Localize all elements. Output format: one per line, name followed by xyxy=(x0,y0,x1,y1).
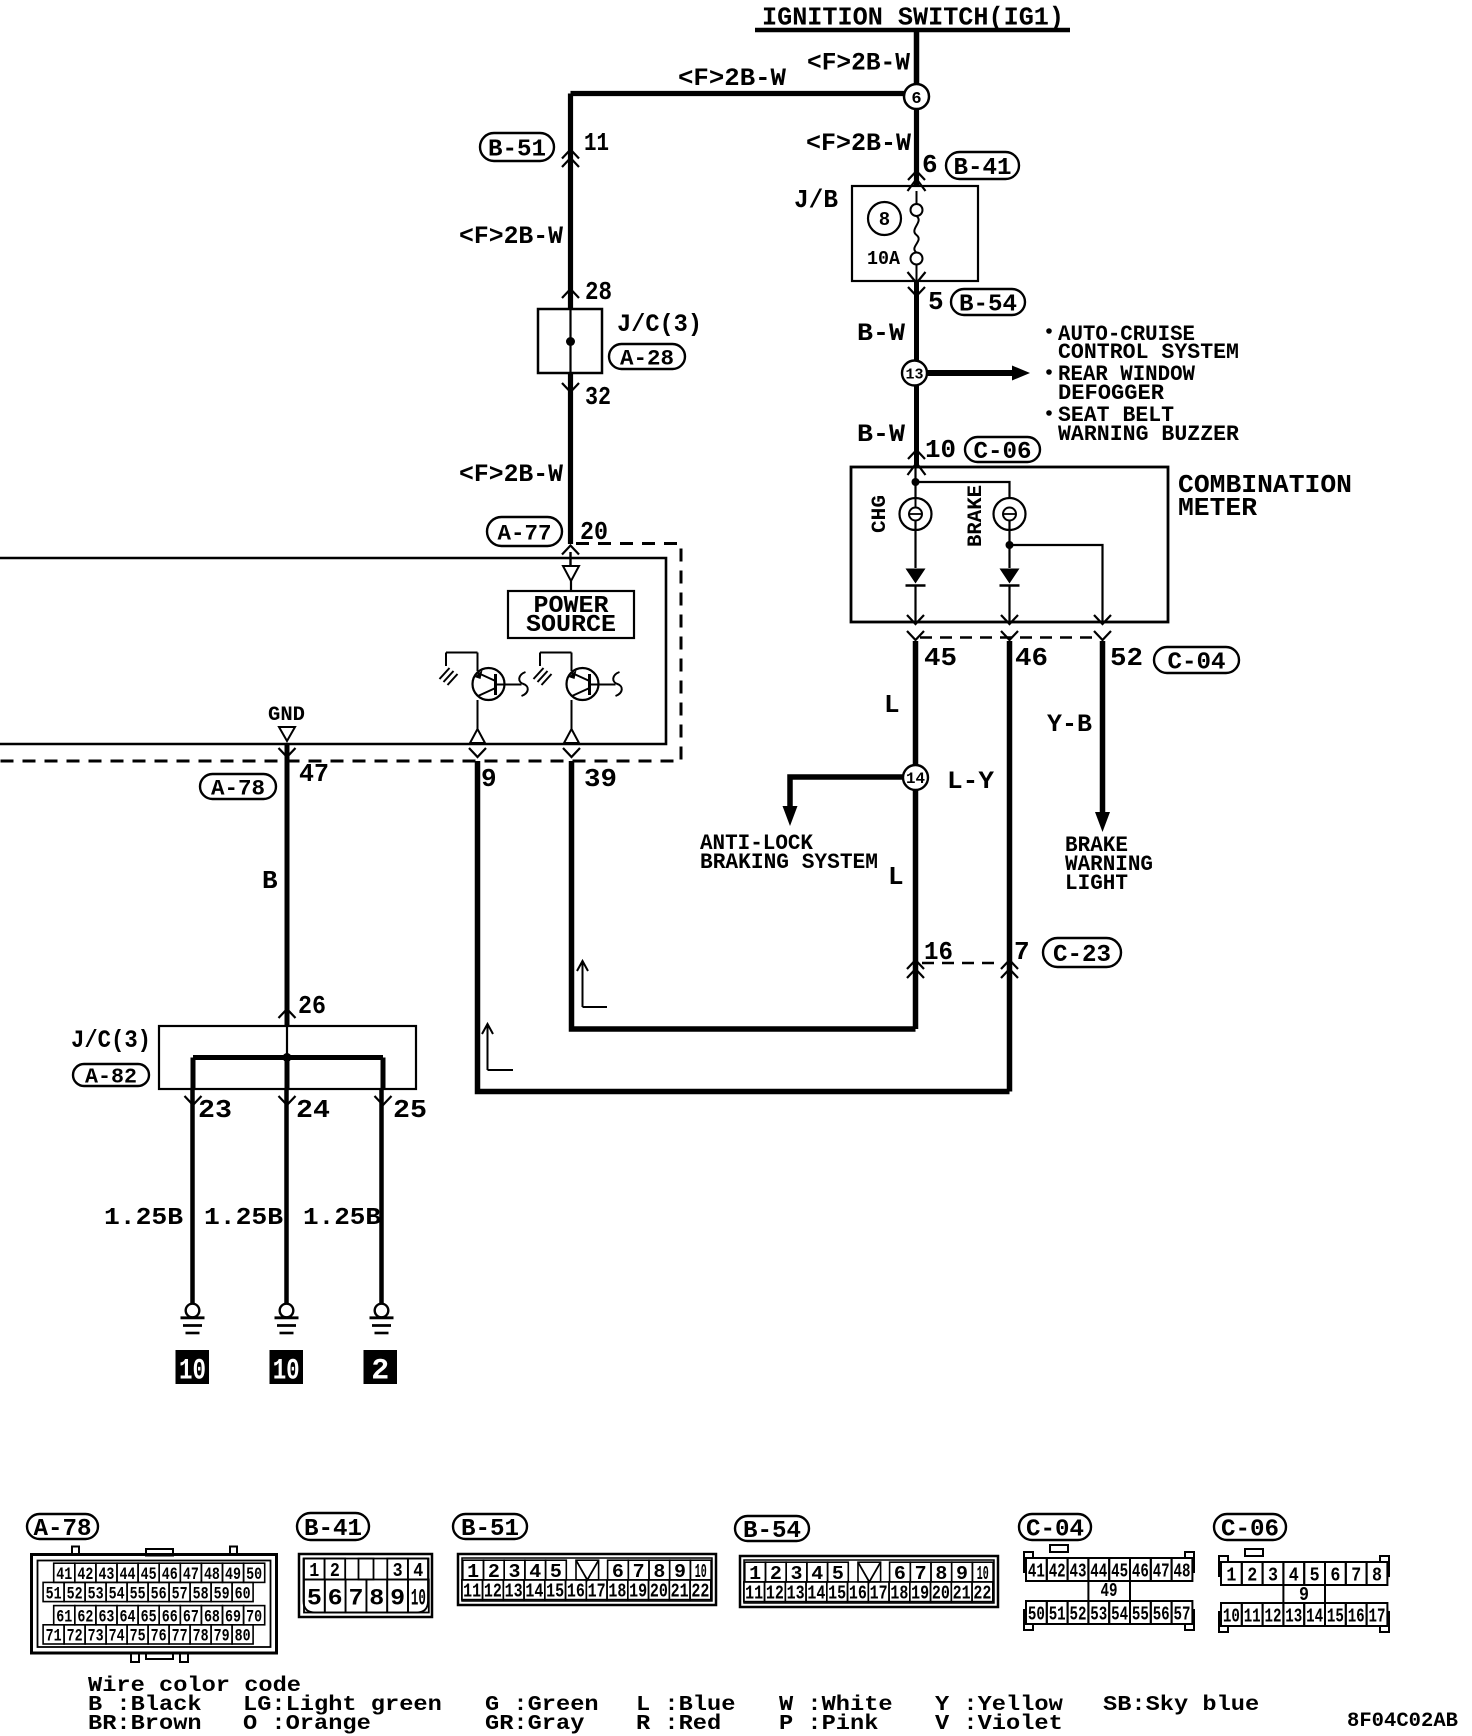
svg-text:20: 20 xyxy=(932,1583,950,1605)
brake warning lamp BRAKE xyxy=(994,498,1026,530)
reference arrow near L-Y wire xyxy=(487,1026,489,1070)
connector B-41 key cavity xyxy=(359,1559,374,1580)
connector A-78 pin 39 chevron xyxy=(563,748,580,757)
svg-text:21: 21 xyxy=(953,1583,971,1605)
svg-text:60: 60 xyxy=(235,1584,251,1604)
svg-text:6: 6 xyxy=(911,90,921,109)
reference arrow near L wire xyxy=(582,963,584,1007)
svg-text:7: 7 xyxy=(1351,1564,1361,1586)
svg-text:74: 74 xyxy=(109,1627,125,1647)
fuse element 10A xyxy=(916,191,918,204)
junction dot below brake lamp xyxy=(1006,541,1014,549)
svg-text:11: 11 xyxy=(584,128,609,158)
junction dot meter top xyxy=(912,478,920,486)
svg-text:B: B xyxy=(262,866,278,896)
node 6 junction circle xyxy=(904,84,929,109)
emitter arc of Q2 xyxy=(613,672,622,696)
ground symbol G3 xyxy=(375,1304,389,1318)
svg-text:26: 26 xyxy=(298,991,326,1021)
J/B entry chevron xyxy=(908,179,926,191)
connector B-51 pins 6-10 xyxy=(608,1560,629,1580)
svg-text:2: 2 xyxy=(371,1355,389,1389)
svg-text:B-54: B-54 xyxy=(743,1518,801,1545)
svg-text:O :Orange: O :Orange xyxy=(243,1713,371,1736)
svg-text:SOURCE: SOURCE xyxy=(526,612,616,639)
svg-text:46: 46 xyxy=(1132,1560,1149,1582)
power source entry triangle pin 20 xyxy=(569,552,571,566)
output pin triangle of Q1 xyxy=(470,729,485,743)
svg-text:39: 39 xyxy=(584,764,617,794)
svg-text:C-23: C-23 xyxy=(1053,942,1111,969)
svg-text:3: 3 xyxy=(1268,1564,1278,1586)
ground wire 1 xyxy=(190,1089,195,1304)
svg-text:17: 17 xyxy=(1369,1605,1386,1627)
svg-text:75: 75 xyxy=(130,1627,146,1647)
svg-text:13: 13 xyxy=(505,1581,523,1603)
svg-text:P :Pink: P :Pink xyxy=(779,1713,878,1736)
svg-text:79: 79 xyxy=(214,1627,230,1647)
svg-text:L-Y: L-Y xyxy=(947,767,994,796)
connector C-06 upper pins xyxy=(1221,1562,1242,1585)
diode D2 under BRAKE xyxy=(1000,569,1020,584)
connector B-41 pin 6 chevron xyxy=(908,171,925,180)
svg-text:16: 16 xyxy=(567,1581,585,1603)
svg-text:51: 51 xyxy=(46,1584,62,1604)
connector C-23 dashed line xyxy=(922,962,1002,964)
svg-text:6: 6 xyxy=(922,150,938,180)
svg-text:48: 48 xyxy=(1174,1560,1191,1582)
svg-text:15: 15 xyxy=(546,1581,564,1603)
svg-text:8: 8 xyxy=(879,209,890,231)
wire drop pin 23 xyxy=(191,1058,196,1090)
ground wire 2 xyxy=(284,1089,289,1304)
svg-text:21: 21 xyxy=(671,1581,689,1603)
connector C-04 lower pins xyxy=(1026,1601,1047,1624)
svg-text:2: 2 xyxy=(1247,1564,1257,1586)
svg-text:11: 11 xyxy=(1244,1605,1261,1627)
svg-text:47: 47 xyxy=(299,759,329,789)
wire node 6 horizontal branch to left xyxy=(571,91,906,96)
svg-text:LIGHT: LIGHT xyxy=(1065,871,1128,896)
connector label A-77 xyxy=(487,517,562,546)
wire node 6 down to J/B xyxy=(914,109,919,187)
svg-text:B-41: B-41 xyxy=(304,1516,362,1543)
svg-text:L: L xyxy=(888,862,904,892)
connector A-77 pin 20 chevron xyxy=(562,546,579,555)
svg-text:6: 6 xyxy=(1330,1564,1340,1586)
svg-text:11: 11 xyxy=(463,1581,481,1603)
svg-text:<F>2B-W: <F>2B-W xyxy=(807,49,910,78)
svg-text:17: 17 xyxy=(588,1581,606,1603)
svg-text:C-06: C-06 xyxy=(974,439,1032,466)
node 14 junction circle xyxy=(903,765,928,790)
svg-text:4: 4 xyxy=(1289,1564,1299,1586)
junction chevron at pin 32 xyxy=(562,383,579,392)
connector C-06 housing xyxy=(1219,1556,1228,1576)
svg-text:80: 80 xyxy=(235,1627,251,1647)
svg-text:54: 54 xyxy=(109,1584,125,1604)
svg-text:10: 10 xyxy=(273,1355,300,1389)
ignition switch bus bar xyxy=(755,28,1070,33)
svg-text:A-28: A-28 xyxy=(620,346,674,371)
svg-text:7: 7 xyxy=(1014,937,1030,967)
svg-text:2: 2 xyxy=(330,1560,340,1582)
bullet rear window xyxy=(1046,369,1052,375)
svg-text:Y-B: Y-B xyxy=(1047,710,1092,739)
connector label B-51 (pinout) xyxy=(453,1514,527,1539)
node 13 junction circle xyxy=(902,361,927,386)
branch arrow from node 13 to systems xyxy=(927,370,1012,376)
meter exit chevrons pin 45 xyxy=(907,615,924,624)
bullet seat belt xyxy=(1046,410,1052,416)
wire L-Y corner from pin 9 xyxy=(478,761,1010,1092)
svg-text:76: 76 xyxy=(151,1627,167,1647)
connector B-54 pin 5 chevron xyxy=(908,287,925,296)
ground wire 3 xyxy=(379,1089,384,1304)
svg-text:10: 10 xyxy=(925,435,956,465)
svg-text:13: 13 xyxy=(1285,1605,1302,1627)
svg-text:5: 5 xyxy=(1310,1564,1320,1586)
connector C-04 top tab xyxy=(1050,1545,1068,1552)
branch wire to pin 52 xyxy=(1010,545,1103,622)
wire B from pin 47 xyxy=(285,744,290,1026)
svg-text:77: 77 xyxy=(172,1627,188,1647)
fuse 8 circle label xyxy=(868,202,901,235)
connector label C-06 (pinout) xyxy=(1214,1514,1286,1540)
wire through J/C(3) A-28 xyxy=(569,309,571,373)
svg-text:58: 58 xyxy=(193,1584,209,1604)
svg-text:12: 12 xyxy=(484,1581,502,1603)
wire from pin 46 xyxy=(1007,641,1013,1092)
svg-text:56: 56 xyxy=(151,1584,167,1604)
svg-text:10: 10 xyxy=(179,1355,206,1389)
wire left branch vertical (F)2B-W xyxy=(568,94,573,309)
wire inside meter from pin 10 xyxy=(914,467,916,498)
wire J/C(3) down to ECU (F)2B-W xyxy=(568,373,573,544)
svg-text:C-04: C-04 xyxy=(1026,1517,1084,1544)
connector C-23 pin 7 chevrons xyxy=(1001,960,1018,969)
chassis ground hatch of Q2 xyxy=(539,653,541,667)
connector C-04 dashed line xyxy=(920,636,1095,638)
connector label C-23 xyxy=(1043,938,1121,967)
connector B-54 pins 11-22 xyxy=(744,1582,765,1602)
svg-text:42: 42 xyxy=(1049,1560,1066,1582)
connector label A-78 (pinout) xyxy=(27,1514,98,1539)
svg-text:A-77: A-77 xyxy=(498,521,552,546)
connector A-78 pins 41-50 xyxy=(54,1563,75,1582)
connector B-54 pins 6-10 xyxy=(890,1562,911,1582)
junction chevron at pin 28 xyxy=(562,289,579,298)
GND pin triangle xyxy=(279,727,295,741)
meter exit chevrons pin 46 xyxy=(1001,615,1018,624)
connector C-06 top tab xyxy=(1245,1549,1263,1556)
connector C-04 housing xyxy=(1024,1552,1033,1572)
connector B-51 pins 1-5 xyxy=(463,1560,484,1580)
pin 26 chevron xyxy=(279,1009,296,1018)
svg-text:J/B: J/B xyxy=(794,185,838,215)
J/B exit chevron xyxy=(908,272,926,283)
svg-text:45: 45 xyxy=(924,643,957,673)
svg-text:52: 52 xyxy=(1110,643,1143,673)
connector label B-41 (pinout) xyxy=(297,1513,369,1540)
svg-text:1: 1 xyxy=(1226,1564,1236,1586)
connector A-78 pins 51-60 xyxy=(43,1582,64,1601)
svg-text:A-82: A-82 xyxy=(85,1067,137,1090)
svg-text:23: 23 xyxy=(198,1095,232,1125)
charge warning lamp CHG xyxy=(900,498,932,530)
connector C-04 upper pins xyxy=(1026,1558,1047,1581)
svg-text:V :Violet: V :Violet xyxy=(935,1713,1063,1736)
connector A-78 top tabs xyxy=(72,1547,79,1555)
svg-text:GND: GND xyxy=(268,704,305,727)
svg-text:46: 46 xyxy=(1015,643,1048,673)
svg-text:7: 7 xyxy=(349,1585,364,1611)
connector B-54 key notch cell xyxy=(858,1562,881,1582)
wire into junction bus xyxy=(286,1026,288,1058)
svg-text:BRAKE: BRAKE xyxy=(965,485,988,547)
svg-text:50: 50 xyxy=(1028,1603,1045,1625)
arrow to brake warning light xyxy=(1095,812,1110,832)
svg-text:10: 10 xyxy=(1223,1605,1240,1627)
connector A-78 bottom tabs xyxy=(131,1653,139,1662)
svg-text:15: 15 xyxy=(828,1583,846,1605)
output lead of Q1 xyxy=(477,700,479,729)
ground reference box 10 (first) xyxy=(176,1350,210,1384)
svg-text:10: 10 xyxy=(411,1585,426,1611)
junction block J/C(3) A-28 box xyxy=(538,309,602,373)
connector label B-54 (pinout) xyxy=(735,1516,809,1541)
ground reference box 2 xyxy=(364,1350,398,1384)
svg-text:16: 16 xyxy=(1348,1605,1365,1627)
svg-text:5: 5 xyxy=(928,287,944,317)
bullet auto-cruise xyxy=(1046,328,1052,334)
connector B-41 housing xyxy=(299,1554,432,1617)
svg-text:A-78: A-78 xyxy=(211,776,265,801)
junction dot A-82 xyxy=(283,1053,292,1062)
svg-text:22: 22 xyxy=(691,1581,709,1603)
wire Y-B from pin 52 xyxy=(1100,641,1106,812)
svg-text:<F>2B-W: <F>2B-W xyxy=(678,64,786,93)
chassis ground hatch of Q1 xyxy=(445,653,447,667)
svg-text:52: 52 xyxy=(1070,1603,1087,1625)
svg-text:14: 14 xyxy=(906,770,925,788)
svg-text:24: 24 xyxy=(296,1095,330,1125)
combination meter box xyxy=(851,467,1168,622)
svg-text:78: 78 xyxy=(193,1627,209,1647)
svg-text:43: 43 xyxy=(1070,1560,1087,1582)
svg-text:B-51: B-51 xyxy=(488,137,546,164)
branch wire to brake lamp xyxy=(916,482,1010,498)
svg-text:3: 3 xyxy=(393,1560,403,1582)
svg-text:54: 54 xyxy=(1111,1603,1128,1625)
svg-text:56: 56 xyxy=(1153,1603,1170,1625)
connector A-78 housing xyxy=(32,1555,277,1654)
svg-text:11: 11 xyxy=(745,1583,763,1605)
connector label C-04 (pinout) xyxy=(1019,1514,1091,1540)
svg-text:<F>2B-W: <F>2B-W xyxy=(806,129,911,158)
svg-text:SB:Sky blue: SB:Sky blue xyxy=(1103,1694,1259,1717)
wire ignition switch to node 6 xyxy=(914,32,920,85)
svg-text:R :Red: R :Red xyxy=(636,1713,721,1736)
svg-text:A-78: A-78 xyxy=(34,1516,92,1543)
connector label A-82 xyxy=(73,1064,149,1086)
svg-text:1: 1 xyxy=(309,1560,319,1582)
svg-text:73: 73 xyxy=(88,1627,104,1647)
svg-text:8: 8 xyxy=(1372,1564,1382,1586)
pin 23 chevron xyxy=(185,1096,202,1105)
connector A-78 pin 47 chevron xyxy=(279,748,296,757)
ECU outer dashed box xyxy=(0,544,681,762)
connector label A-78 xyxy=(200,774,276,799)
output pin triangle of Q2 xyxy=(564,729,579,743)
svg-text:4: 4 xyxy=(413,1560,423,1582)
connector label B-54 xyxy=(951,289,1025,315)
ground symbol G2 xyxy=(280,1304,294,1318)
connector C-06 middle pin 9 xyxy=(1282,1585,1284,1603)
pin 24 chevron xyxy=(279,1096,296,1105)
connector C-06 pin 10 chevron xyxy=(908,450,925,459)
ECU solid box xyxy=(0,558,666,744)
svg-text:CHG: CHG xyxy=(869,495,892,533)
svg-text:16: 16 xyxy=(849,1583,867,1605)
connector A-78 pins 71-80 xyxy=(43,1625,64,1644)
svg-text:57: 57 xyxy=(1174,1603,1191,1625)
connector B-41 pins 5-10 xyxy=(304,1580,325,1613)
svg-text:<F>2B-W: <F>2B-W xyxy=(459,222,563,251)
svg-text:51: 51 xyxy=(1049,1603,1066,1625)
svg-text:12: 12 xyxy=(766,1583,784,1605)
svg-text:53: 53 xyxy=(1090,1603,1107,1625)
svg-text:55: 55 xyxy=(1132,1603,1149,1625)
power source block xyxy=(570,581,572,591)
svg-text:53: 53 xyxy=(88,1584,104,1604)
svg-text:25: 25 xyxy=(393,1095,427,1125)
svg-text:72: 72 xyxy=(67,1627,83,1647)
svg-text:14: 14 xyxy=(807,1583,825,1605)
ground symbol G1 xyxy=(186,1304,200,1318)
svg-text:B-54: B-54 xyxy=(959,292,1017,319)
junction block J/B box xyxy=(852,186,978,281)
svg-text:13: 13 xyxy=(787,1583,805,1605)
connector B-54 housing xyxy=(740,1556,998,1607)
connector C-04 middle pin 49 xyxy=(1087,1581,1089,1601)
svg-text:47: 47 xyxy=(1153,1560,1170,1582)
wire J/B to combination meter B-W xyxy=(914,281,919,467)
svg-text:18: 18 xyxy=(890,1583,908,1605)
svg-text:14: 14 xyxy=(1306,1605,1323,1627)
junction bus bar A-82 xyxy=(193,1055,383,1060)
wire L corner from pin 39 xyxy=(572,761,916,1029)
svg-text:C-04: C-04 xyxy=(1168,650,1226,677)
svg-text:28: 28 xyxy=(585,277,612,307)
svg-text:20: 20 xyxy=(650,1581,668,1603)
combination meter entry chevron xyxy=(908,463,926,475)
connector label A-28 xyxy=(609,344,685,369)
svg-text:9: 9 xyxy=(390,1585,405,1611)
svg-text:BR:Brown: BR:Brown xyxy=(88,1713,202,1736)
svg-text:L: L xyxy=(884,690,900,720)
svg-text:WARNING BUZZER: WARNING BUZZER xyxy=(1058,422,1240,447)
connector B-51 housing xyxy=(458,1554,716,1605)
connector A-78 pin 9 chevron xyxy=(469,748,486,757)
svg-text:B-41: B-41 xyxy=(954,155,1012,182)
connector label C-04 xyxy=(1154,647,1239,673)
svg-text:B-W: B-W xyxy=(857,420,905,449)
svg-text:18: 18 xyxy=(608,1581,626,1603)
svg-text:8: 8 xyxy=(369,1585,384,1611)
svg-text:59: 59 xyxy=(214,1584,230,1604)
connector C-06 lower pins xyxy=(1221,1603,1242,1626)
svg-text:49: 49 xyxy=(1101,1580,1118,1602)
svg-text:6: 6 xyxy=(328,1585,343,1611)
connector label B-51 xyxy=(480,133,554,161)
junction dot inside J/C(3) A-28 xyxy=(566,337,575,346)
connector A-78 pins 61-70 xyxy=(54,1606,75,1625)
transistor Q2 xyxy=(567,668,599,700)
connector label B-41 xyxy=(946,152,1019,179)
connector B-41 pins 1-4 xyxy=(304,1559,325,1580)
svg-text:BRAKING SYSTEM: BRAKING SYSTEM xyxy=(700,850,878,875)
svg-text:41: 41 xyxy=(1028,1560,1045,1582)
svg-text:14: 14 xyxy=(525,1581,543,1603)
output lead of Q2 xyxy=(571,700,573,729)
svg-text:12: 12 xyxy=(1265,1605,1282,1627)
svg-text:13: 13 xyxy=(906,367,924,384)
meter exit chevrons pin 52 xyxy=(1094,615,1111,624)
svg-text:32: 32 xyxy=(585,382,611,412)
svg-text:C-06: C-06 xyxy=(1221,1517,1279,1544)
svg-text:57: 57 xyxy=(172,1584,188,1604)
svg-text:1.25B: 1.25B xyxy=(303,1205,381,1232)
svg-text:GR:Gray: GR:Gray xyxy=(485,1713,585,1736)
svg-text:1.25B: 1.25B xyxy=(204,1205,283,1232)
connector B-51 pin 11 crossing chevrons xyxy=(562,150,579,159)
connector B-54 pins 1-5 xyxy=(745,1562,766,1582)
svg-text:10A: 10A xyxy=(867,248,901,270)
diode D1 under CHG xyxy=(906,569,926,584)
connector C-23 pin 16 chevrons xyxy=(907,960,924,969)
connector B-51 key notch cell xyxy=(576,1560,599,1580)
svg-text:19: 19 xyxy=(911,1583,929,1605)
wire drop pin 24 xyxy=(285,1058,290,1090)
pin 25 chevron xyxy=(375,1096,392,1105)
svg-text:B-51: B-51 xyxy=(461,1516,519,1543)
transistor Q1 xyxy=(473,668,505,700)
wire L from pin 45 xyxy=(913,641,919,1029)
svg-text:22: 22 xyxy=(973,1583,991,1605)
svg-text:9: 9 xyxy=(481,764,497,794)
ground reference box 10 (second) xyxy=(270,1350,304,1384)
wire drop pin 25 xyxy=(381,1058,386,1090)
svg-text:B-W: B-W xyxy=(857,319,905,348)
svg-text:17: 17 xyxy=(870,1583,888,1605)
svg-text:1.25B: 1.25B xyxy=(104,1205,183,1232)
svg-text:52: 52 xyxy=(67,1584,83,1604)
svg-text:8F04C02AB: 8F04C02AB xyxy=(1347,1710,1458,1733)
svg-text:5: 5 xyxy=(307,1585,322,1611)
svg-text:METER: METER xyxy=(1178,493,1257,523)
svg-text:55: 55 xyxy=(130,1584,146,1604)
svg-text:J/C(3): J/C(3) xyxy=(71,1026,151,1055)
svg-text:15: 15 xyxy=(1327,1605,1344,1627)
svg-text:71: 71 xyxy=(46,1627,62,1647)
arrow to anti-lock braking system xyxy=(783,806,798,826)
svg-text:19: 19 xyxy=(629,1581,647,1603)
svg-text:<F>2B-W: <F>2B-W xyxy=(459,460,563,489)
connector label C-06 xyxy=(965,437,1040,462)
junction block J/C(3) A-82 box xyxy=(159,1026,416,1089)
svg-text:J/C(3): J/C(3) xyxy=(617,310,702,339)
